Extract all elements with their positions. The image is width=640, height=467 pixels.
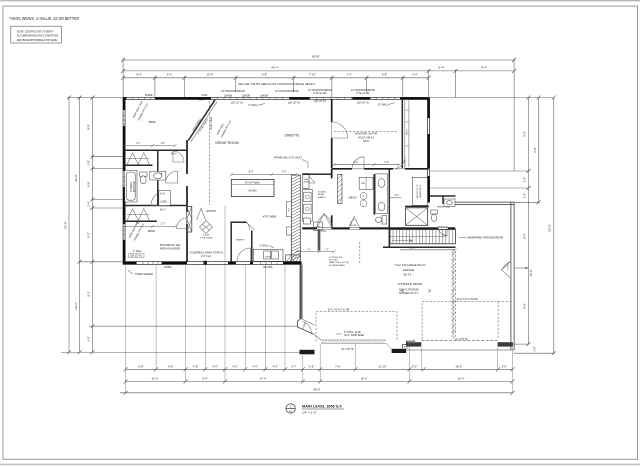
pantry walls bbox=[231, 222, 246, 261]
svg-text:A2: A2 bbox=[289, 410, 293, 414]
svg-text:VAULT LINE: VAULT LINE bbox=[210, 117, 213, 130]
svg-text:2'-2": 2'-2" bbox=[161, 143, 166, 145]
svg-text:PROVIDE DRL LED: PROVIDE DRL LED bbox=[160, 245, 181, 247]
top dim line 2 bbox=[123, 70, 514, 72]
svg-text:2'-8": 2'-8" bbox=[87, 160, 91, 165]
laundry toilet bbox=[382, 216, 387, 225]
svg-text:24'-0": 24'-0" bbox=[529, 270, 533, 277]
svg-text:PANTRY: PANTRY bbox=[236, 239, 245, 242]
svg-text:COVERED LIVING PORCH: COVERED LIVING PORCH bbox=[189, 250, 222, 254]
svg-text:2'-4": 2'-4" bbox=[523, 177, 527, 182]
top extension verticals bbox=[122, 59, 124, 98]
svg-text:9'-8": 9'-8" bbox=[523, 131, 527, 136]
toilet powder bbox=[431, 210, 438, 214]
svg-text:6'-0": 6'-0" bbox=[307, 249, 311, 251]
mech bottom wall bbox=[302, 227, 455, 229]
master west wall bbox=[331, 99, 333, 228]
svg-text:3'-0": 3'-0" bbox=[502, 364, 507, 368]
svg-text:(2)4 1/2" HL: (2)4 1/2" HL bbox=[288, 102, 301, 104]
svg-text:2-2W0: 2-2W0 bbox=[507, 265, 509, 270]
svg-text:3-040: 3-040 bbox=[198, 100, 205, 102]
master south wall bbox=[332, 168, 429, 170]
svg-text:3'-0": 3'-0" bbox=[412, 364, 417, 368]
svg-text:4'-0": 4'-0" bbox=[273, 364, 278, 368]
svg-text:4'-0": 4'-0" bbox=[232, 364, 237, 368]
svg-text:W: W bbox=[362, 196, 364, 198]
svg-text:52/12: 52/12 bbox=[363, 141, 369, 143]
svg-text:(2)4 1/2" HL: (2)4 1/2" HL bbox=[130, 256, 143, 258]
screenshot top edge line bbox=[0, 0, 640, 2]
svg-text:(2)4 1/2" HL: (2)4 1/2" HL bbox=[314, 101, 327, 103]
svg-text:2'-2": 2'-2" bbox=[161, 224, 166, 226]
svg-text:16'-0" X 8'-0" OH DR: 16'-0" X 8'-0" OH DR bbox=[457, 299, 479, 301]
window mullions north wall bbox=[133, 97, 395, 100]
hall door arcs bbox=[166, 171, 178, 183]
svg-text:4030SL: 4030SL bbox=[145, 95, 154, 97]
svg-text:2-2W6: 2-2W6 bbox=[321, 231, 326, 233]
svg-text:MECH: MECH bbox=[349, 195, 357, 199]
powder door arc bbox=[438, 227, 447, 236]
svg-text:A COMMON WALL: A COMMON WALL bbox=[329, 264, 345, 267]
svg-text:1/4" = 1'-0": 1/4" = 1'-0" bbox=[302, 411, 318, 415]
svg-text:3'-7": 3'-7" bbox=[291, 364, 296, 368]
linen bbox=[159, 191, 171, 206]
svg-text:22'-0": 22'-0" bbox=[458, 377, 465, 381]
north wall double line bbox=[123, 96, 429, 98]
svg-text:2'-8": 2'-8" bbox=[533, 147, 537, 152]
svg-text:80'-8": 80'-8" bbox=[312, 55, 320, 59]
svg-text:LINEN: LINEN bbox=[160, 202, 167, 204]
svg-text:4'-0": 4'-0" bbox=[282, 172, 287, 174]
svg-text:6'-2": 6'-2" bbox=[167, 72, 172, 76]
svg-text:13'-4": 13'-4" bbox=[207, 72, 214, 76]
window mullions south wall bbox=[143, 261, 277, 265]
svg-text:PASS-HD HEADER: PASS-HD HEADER bbox=[160, 247, 181, 250]
svg-text:4" CONC. SLAB: 4" CONC. SLAB bbox=[344, 331, 361, 334]
svg-text:17'-0": 17'-0" bbox=[260, 377, 267, 381]
note box contractor bbox=[11, 26, 62, 43]
bdm1 dim line bbox=[124, 145, 175, 147]
svg-text:9'-2": 9'-2" bbox=[87, 232, 91, 237]
kitchen island bbox=[231, 179, 274, 196]
svg-text:W.I.C: W.I.C bbox=[160, 210, 166, 212]
svg-text:3'-0": 3'-0" bbox=[87, 336, 91, 341]
bottom dim row3 80'-8" bbox=[120, 392, 513, 394]
ovens right of wall bbox=[302, 190, 312, 222]
svg-text:4" PNL WDWS: 4" PNL WDWS bbox=[200, 237, 213, 239]
svg-text:SHAFTS: SHAFTS bbox=[318, 196, 326, 199]
washer dryer bbox=[359, 177, 373, 189]
svg-text:(2) 1 7/8" HL: (2) 1 7/8" HL bbox=[341, 349, 355, 351]
chimney hatch block bbox=[285, 255, 300, 262]
svg-text:6'-6": 6'-6" bbox=[168, 364, 173, 368]
svg-text:7'-4": 7'-4" bbox=[136, 224, 141, 226]
bottom dim row2 bbox=[126, 380, 513, 382]
front door arc bbox=[237, 248, 251, 262]
svg-text:9'-8": 9'-8" bbox=[87, 124, 91, 129]
step dim bbox=[297, 251, 335, 253]
svg-text:3-040: 3-040 bbox=[201, 95, 208, 97]
svg-text:5'-4": 5'-4" bbox=[439, 65, 445, 69]
svg-text:18'-0": 18'-0" bbox=[410, 247, 416, 249]
bath door arc bbox=[151, 191, 166, 206]
svg-text:*4 1/2" 2X6 GARAGE WALLS*: *4 1/2" 2X6 GARAGE WALLS* bbox=[394, 264, 425, 267]
mech dim bbox=[389, 197, 401, 199]
svg-text:4'-4": 4'-4" bbox=[394, 195, 399, 197]
svg-text:4" WALL: 4" WALL bbox=[133, 250, 143, 253]
svg-text:SHWR: SHWR bbox=[304, 182, 310, 184]
svg-text:6'-6": 6'-6" bbox=[138, 364, 143, 368]
laundry divider bbox=[373, 174, 375, 215]
shower with X bbox=[406, 208, 428, 226]
svg-text:4'-0": 4'-0" bbox=[253, 364, 258, 368]
svg-text:8' SL GL DR: 8' SL GL DR bbox=[357, 93, 370, 95]
svg-text:HANDFRAME STAIR HEADROOM: HANDFRAME STAIR HEADROOM bbox=[467, 237, 503, 240]
svg-text:ISLAND: ISLAND bbox=[248, 189, 257, 192]
right connectors / eave lines bbox=[430, 97, 554, 99]
porch slab hatch band bbox=[321, 340, 392, 349]
wic door arc bbox=[173, 151, 184, 162]
svg-text:DINETTE: DINETTE bbox=[285, 133, 301, 137]
svg-text:16'-0": 16'-0" bbox=[455, 364, 462, 368]
svg-text:7'-0": 7'-0" bbox=[335, 364, 340, 368]
master door arcs bbox=[352, 157, 364, 169]
window mullions west wall bbox=[123, 116, 126, 239]
north wall solid segments bbox=[123, 97, 429, 99]
svg-text:(2) 1 7/8" HL: (2) 1 7/8" HL bbox=[455, 339, 469, 341]
svg-text:F/T BONUS ABOVE: F/T BONUS ABOVE bbox=[398, 282, 422, 286]
svg-text:KITCHEN: KITCHEN bbox=[263, 214, 277, 218]
svg-text:6" WALL: 6" WALL bbox=[249, 104, 259, 107]
bdm2 closet bbox=[124, 220, 157, 222]
svg-text:24" TRANSOM ABOVE: 24" TRANSOM ABOVE bbox=[221, 90, 245, 93]
top dim line 3 bbox=[123, 77, 429, 79]
garage top wall bbox=[455, 201, 514, 203]
hall double door arcs bbox=[317, 214, 332, 228]
svg-text:*VINYL WDWS, U-VALUE .32 OR BE: *VINYL WDWS, U-VALUE .32 OR BETTER bbox=[9, 16, 79, 22]
svg-text:5'-4": 5'-4" bbox=[412, 72, 417, 76]
garage bonus dashed lines bbox=[453, 249, 455, 340]
svg-text:24" TRANSOM ABOVE: 24" TRANSOM ABOVE bbox=[351, 89, 375, 92]
stair bottom wall bbox=[383, 246, 456, 248]
mech right wall bbox=[388, 169, 390, 248]
svg-text:80'-8": 80'-8" bbox=[314, 388, 321, 392]
svg-text:8'-4": 8'-4" bbox=[523, 303, 527, 308]
svg-text:7'-4": 7'-4" bbox=[136, 143, 141, 145]
svg-text:FRAME WALLS TO VAULT: FRAME WALLS TO VAULT bbox=[274, 156, 302, 159]
svg-text:8'-6": 8'-6" bbox=[202, 377, 207, 381]
screenshot bottom gray band bbox=[0, 463, 640, 465]
master closet wall bbox=[401, 99, 403, 168]
svg-text:9'-6": 9'-6" bbox=[87, 181, 91, 186]
svg-text:ACCESS DR TO: ACCESS DR TO bbox=[416, 184, 419, 198]
title circle bbox=[286, 404, 295, 413]
front porch OH dashed rect bbox=[316, 312, 397, 342]
east wall (master) bbox=[427, 97, 429, 202]
svg-text:2'-0": 2'-0" bbox=[532, 346, 536, 351]
svg-text:52'-8": 52'-8" bbox=[64, 221, 68, 229]
svg-text:AND BE RESPONSIBLE FOR SAME: AND BE RESPONSIBLE FOR SAME bbox=[17, 38, 57, 42]
powder vanity bbox=[444, 199, 455, 207]
closet mid wall bbox=[124, 164, 153, 166]
svg-text:SAME TYPE 4 LVIT (B): SAME TYPE 4 LVIT (B) bbox=[329, 261, 349, 264]
svg-text:16 R: 16 R bbox=[443, 235, 448, 237]
svg-text:6'-4": 6'-4" bbox=[136, 72, 141, 76]
svg-text:8'-4": 8'-4" bbox=[523, 233, 527, 238]
svg-text:GARAGE ATTIC: GARAGE ATTIC bbox=[419, 184, 422, 198]
kitchen south counters bbox=[253, 249, 283, 261]
svg-text:VAULT LNE 9-0: VAULT LNE 9-0 bbox=[358, 137, 375, 140]
svg-text:8'-0": 8'-0" bbox=[249, 172, 254, 174]
svg-text:9'-4": 9'-4" bbox=[481, 65, 487, 69]
top dim line 1 overall 80'-8" bbox=[123, 59, 514, 61]
svg-text:2'-4": 2'-4" bbox=[325, 249, 329, 251]
garage right wall bbox=[510, 202, 512, 350]
svg-text:ARCHWL: ARCHWL bbox=[263, 266, 274, 269]
porch column right bbox=[392, 349, 407, 353]
svg-text:B 7 1: B 7 1 bbox=[406, 129, 408, 133]
porch slab lines bbox=[90, 325, 298, 327]
svg-text:8' FLAT WALK: 8' FLAT WALK bbox=[245, 181, 260, 184]
entry door triangle bbox=[197, 209, 206, 221]
vanity bbox=[150, 171, 166, 180]
svg-text:7'-6": 7'-6" bbox=[384, 162, 389, 164]
svg-text:9'-8": 9'-8" bbox=[262, 72, 267, 76]
mech west hatched wall bbox=[338, 174, 343, 203]
svg-text:GREAT ROOM: GREAT ROOM bbox=[215, 141, 239, 145]
svg-text:24" TRANSOM ABOVE: 24" TRANSOM ABOVE bbox=[308, 89, 332, 92]
svg-text:13'-0": 13'-0" bbox=[152, 377, 159, 381]
left connector ticks bbox=[68, 97, 123, 99]
svg-text:BDM: BDM bbox=[149, 120, 156, 124]
hall wall vertical bbox=[157, 150, 159, 205]
svg-text:2-2060: 2-2060 bbox=[203, 235, 209, 237]
svg-text:10" WALL: 10" WALL bbox=[378, 104, 389, 107]
svg-text:34'-0": 34'-0" bbox=[74, 174, 78, 182]
south wall bbox=[123, 261, 301, 263]
svg-text:8' SL GL DR: 8' SL GL DR bbox=[314, 93, 327, 95]
toilet bbox=[140, 172, 148, 176]
bottom dim row1 bbox=[126, 368, 513, 370]
left dim line mid 34'-0" bbox=[79, 98, 81, 353]
svg-text:(2)4 1/2" HL: (2)4 1/2" HL bbox=[357, 102, 370, 104]
svg-text:7'-10": 7'-10" bbox=[309, 72, 316, 76]
porch post bbox=[204, 261, 208, 265]
svg-text:ON 4" SAND BASE: ON 4" SAND BASE bbox=[344, 334, 364, 337]
svg-text:STONE VENEER: STONE VENEER bbox=[135, 274, 153, 276]
svg-text:1'-4": 1'-4" bbox=[523, 193, 527, 198]
svg-text:10'-10": 10'-10" bbox=[378, 364, 386, 368]
bottom extension verticals bbox=[126, 206, 513, 394]
svg-text:2-DW6: 2-DW6 bbox=[351, 225, 357, 227]
island dim bbox=[231, 174, 295, 176]
svg-text:ALL DIMENSIONS AND CONDITIONS: ALL DIMENSIONS AND CONDITIONS bbox=[17, 34, 59, 38]
vault line dashed bbox=[209, 101, 211, 205]
common wall hatch bbox=[451, 251, 453, 338]
svg-text:4" WALL: 4" WALL bbox=[260, 244, 270, 247]
svg-text:NOTE* CONTRACTOR TO VERIFY: NOTE* CONTRACTOR TO VERIFY bbox=[17, 29, 54, 33]
svg-text:42SNK: 42SNK bbox=[265, 256, 271, 258]
stair dim bbox=[400, 249, 455, 251]
front door bay popout bbox=[297, 319, 313, 334]
garage OH door dashed bbox=[422, 301, 498, 339]
svg-text:METAL: METAL bbox=[318, 193, 324, 196]
west wall bbox=[122, 97, 124, 264]
svg-text:MAIN LEVEL 1656 S.F.: MAIN LEVEL 1656 S.F. bbox=[302, 405, 343, 409]
svg-text:(2)4 1/2" HL: (2)4 1/2" HL bbox=[231, 102, 244, 104]
bdm2 dim bbox=[124, 225, 175, 227]
laundry counter bbox=[375, 174, 387, 214]
access cabinet bbox=[412, 177, 427, 205]
svg-text:MASTER SUITE: MASTER SUITE bbox=[355, 132, 377, 136]
REF bbox=[286, 202, 291, 217]
left dim line inner bbox=[91, 98, 93, 353]
closet1 doors bbox=[127, 153, 150, 165]
dishwasher bbox=[314, 222, 323, 231]
svg-text:19'-2": 19'-2" bbox=[361, 377, 368, 381]
powder room walls bbox=[430, 195, 456, 197]
bathtub bbox=[125, 170, 137, 202]
right dim verticals bbox=[527, 98, 529, 345]
svg-text:3'-6": 3'-6" bbox=[309, 364, 314, 368]
svg-text:8'-0": 8'-0" bbox=[354, 162, 359, 164]
svg-text:P TBRAIL: P TBRAIL bbox=[130, 181, 133, 192]
garage bottom-left step outline bbox=[403, 340, 415, 349]
closet row top wall bbox=[124, 149, 187, 151]
svg-text:ENTRY: ENTRY bbox=[206, 209, 216, 213]
hatched tall wall kitchen east bbox=[291, 175, 300, 262]
dashed line down bbox=[359, 242, 361, 265]
svg-text:5'-8": 5'-8" bbox=[382, 72, 387, 76]
svg-text:GARAGE: GARAGE bbox=[403, 268, 415, 272]
svg-text:BDM: BDM bbox=[148, 229, 155, 233]
svg-text:8'-0" X 8'-0" O.H. DR: 8'-0" X 8'-0" O.H. DR bbox=[328, 309, 350, 311]
svg-text:K 4 1: K 4 1 bbox=[160, 194, 166, 196]
svg-text:19'-2": 19'-2" bbox=[74, 302, 78, 310]
svg-text:*RE-USE* TRUSS HEELS FOR CONTI: *RE-USE* TRUSS HEELS FOR CONTINUOUS RIDG… bbox=[238, 82, 315, 86]
wall between bdm wing and great room bbox=[186, 140, 188, 262]
svg-text:4'-8": 4'-8" bbox=[193, 364, 198, 368]
wall below hall to porch bbox=[318, 230, 320, 251]
garage door arc right wall bbox=[502, 261, 511, 278]
svg-text:43'-4": 43'-4" bbox=[271, 65, 279, 69]
svg-text:9'-2": 9'-2" bbox=[87, 291, 91, 296]
svg-text:4030SL: 4030SL bbox=[164, 267, 173, 269]
hall single door arc bbox=[350, 217, 360, 228]
garage bottom wall with end blocks bbox=[421, 339, 497, 341]
svg-text:9'-0" CLG: 9'-0" CLG bbox=[201, 256, 211, 258]
svg-text:592 S.F.: 592 S.F. bbox=[403, 275, 412, 277]
master dims bbox=[334, 164, 399, 166]
svg-text:24" TRANSOM ABOVE: 24" TRANSOM ABOVE bbox=[275, 90, 299, 93]
mech top wall bbox=[302, 173, 331, 175]
svg-text:TRUSSES 24" O.C.: TRUSSES 24" O.C. bbox=[399, 293, 420, 295]
svg-text:2'-4": 2'-4" bbox=[87, 201, 91, 206]
small shower room labels bbox=[303, 174, 309, 189]
bath bottom wall bbox=[124, 205, 187, 207]
porch column left bbox=[300, 350, 315, 355]
entry diagonal closet diamond bbox=[200, 221, 213, 234]
entry/porch west wall bbox=[300, 264, 302, 319]
left dim line outer 52'-8" bbox=[68, 98, 70, 353]
entry closet strip bbox=[187, 207, 192, 233]
svg-text:W.I.C: W.I.C bbox=[171, 154, 177, 156]
svg-text:DOUBLE: DOUBLE bbox=[318, 191, 327, 193]
svg-text:7'-4": 7'-4" bbox=[346, 72, 351, 76]
diagonal wall at great room corner bbox=[188, 100, 215, 141]
svg-text:4'-0": 4'-0" bbox=[213, 364, 218, 368]
svg-text:52'-8": 52'-8" bbox=[548, 224, 552, 232]
svg-text:BATHTUB: BATHTUB bbox=[133, 181, 136, 192]
